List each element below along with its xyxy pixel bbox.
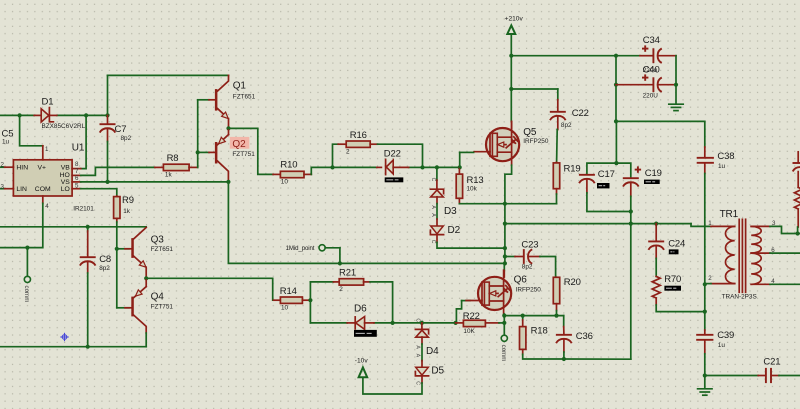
wire C34/C40 right to ground [675, 56, 677, 104]
wire D1/C5 net (top-left, y=115.4) [0, 114, 34, 116]
wire down-left to U1 pin1 [20, 115, 43, 145]
wire Q5 source rail down [504, 204, 506, 264]
node junction R13/Q5 gate [458, 165, 462, 169]
wire to C38 column [616, 121, 705, 147]
svg-text:C21: C21 [763, 356, 780, 367]
diode D1 (zener BZX85C6V2RL) [34, 108, 57, 122]
node junction C24 tap on rail [654, 222, 658, 226]
wire D3-D2 link [436, 197, 438, 226]
svg-text:6: 6 [75, 175, 79, 182]
capacitor C17 [579, 175, 631, 212]
svg-text:R21: R21 [339, 267, 356, 278]
value C23 8p2 [522, 263, 533, 270]
pin marker A (D3 anode) [430, 205, 436, 209]
value Q1 FZT651 [233, 94, 256, 101]
resistor R21 [333, 279, 392, 323]
wire TR1 pin2 to x705 column [705, 283, 711, 285]
value TRAN-2P3S [722, 293, 757, 300]
svg-text:8p2: 8p2 [522, 263, 533, 270]
svg-text:R14: R14 [280, 286, 297, 297]
pin 8 stub (VB) [72, 168, 81, 170]
label C38 [717, 151, 734, 162]
pin 2 stub (HIN) and wire [0, 166, 13, 168]
capacitor (partial, right edge) [793, 152, 800, 172]
wire Q6 gate to R22 node [456, 301, 470, 323]
pin number 3 (TR1) [772, 220, 776, 227]
transistor Q3 FZT651 [125, 227, 146, 278]
label D4 [426, 346, 439, 357]
wire TR1 pin4 net [770, 283, 800, 285]
svg-text:2: 2 [346, 149, 350, 156]
label comm (left, rotated) [23, 286, 30, 303]
wire +210v vertical [510, 34, 512, 122]
svg-text:A: A [430, 205, 436, 209]
label Q3 [151, 235, 165, 246]
svg-text:10K: 10K [463, 328, 475, 335]
node junction Q2 base tap [196, 150, 200, 154]
svg-text:D4: D4 [426, 346, 439, 357]
svg-text:Q1: Q1 [233, 80, 247, 91]
wire TR1 pin3 net [770, 226, 800, 233]
label R8 [167, 153, 179, 164]
wire to C21 [705, 375, 758, 377]
wire D4-D5 link [421, 337, 423, 367]
svg-text:LIN: LIN [16, 186, 27, 193]
label R18 [531, 326, 548, 337]
capacitor C40 220U [616, 74, 676, 92]
label D6 [354, 303, 367, 314]
svg-text:C40: C40 [643, 65, 660, 76]
value Q6 IRFP250 [516, 287, 542, 294]
svg-text:7: 7 [75, 168, 79, 175]
value D22 (black tag) [385, 177, 404, 182]
power -10v [355, 358, 369, 378]
label C34 [643, 35, 660, 46]
wire bottom rail (y=346.7) [0, 346, 146, 348]
node junction C40 right [674, 83, 678, 87]
svg-text:1: 1 [708, 220, 712, 227]
label C23 [521, 239, 538, 250]
svg-text:1k: 1k [123, 208, 131, 215]
label R10 [280, 159, 297, 170]
wire D5 to -10v [363, 377, 422, 394]
value R16 2 [346, 149, 350, 156]
wire C34/C40 left column [615, 56, 617, 122]
label R21 [339, 267, 356, 278]
wire main node (y=167.4) D22 segment [333, 166, 460, 168]
wire D4 top pin [421, 323, 423, 329]
wire D3 top pin [436, 167, 438, 188]
svg-text:IRFP250: IRFP250 [516, 287, 542, 294]
value C22 8p2 [561, 122, 572, 129]
svg-text:2: 2 [1, 161, 5, 168]
wire VB vertical (x=86.1) [81, 115, 86, 168]
power +210v [505, 15, 524, 34]
wire VS rail (y=181.9) [81, 181, 229, 183]
wire to ground (bottom right) [704, 376, 706, 389]
svg-text:FZT651: FZT651 [233, 94, 256, 101]
pin number 6 (TR1) [771, 247, 775, 254]
node junction at VB column (86.1,115.4) [84, 113, 88, 117]
value C39 1u [718, 342, 726, 349]
svg-text:VS: VS [61, 179, 71, 186]
svg-text:comm: comm [500, 345, 507, 362]
capacitor C38 [697, 147, 714, 174]
pin number 5 [75, 183, 79, 190]
svg-text:V+: V+ [38, 165, 47, 172]
node junction C23 tap [503, 254, 507, 258]
value R70 (black tag) [664, 286, 681, 291]
svg-text:BZX85C6V2RL: BZX85C6V2RL [42, 123, 86, 130]
value R14 10 [281, 305, 289, 312]
svg-text:10k: 10k [467, 186, 478, 193]
label R9 [122, 195, 134, 206]
svg-text:A: A [415, 345, 421, 349]
wire COM down to comm rail [0, 203, 43, 247]
node junction C36 bottom [562, 357, 566, 361]
node junction D2 net [503, 246, 507, 250]
transistor Q2 FZT751 (highlighted) [198, 128, 250, 182]
node junction TR1 primary rail [503, 222, 507, 226]
pin number 4 (TR1) [771, 278, 775, 285]
label R14 [280, 286, 297, 297]
node junction Q3/Q4 bases [115, 247, 119, 251]
wire LO to R9 [81, 189, 117, 196]
svg-text:R9: R9 [122, 195, 134, 206]
label R13 [467, 175, 484, 186]
origin marker (blue) [60, 333, 68, 341]
wire emitters to R10 [229, 128, 274, 174]
transistor Q5 IRFP250 [460, 121, 520, 203]
value C24 (black tag) [669, 249, 679, 254]
node junction Q1/Q2 emitters [226, 126, 230, 130]
label U1 [72, 143, 85, 154]
svg-text:C38: C38 [717, 151, 734, 162]
diode D2 (zener) [430, 226, 443, 235]
svg-text:Q4: Q4 [151, 291, 165, 302]
svg-text:2: 2 [708, 275, 712, 282]
svg-text:C: C [415, 318, 421, 322]
svg-text:HIN: HIN [16, 165, 28, 172]
label C39 [717, 330, 734, 341]
resistor R10 [273, 171, 311, 177]
capacitor C24 [648, 224, 664, 277]
label D3 [444, 206, 457, 217]
resistor (partial zigzag, right edge) [794, 172, 800, 234]
node junction R70 bottom tap [703, 310, 707, 314]
op-amp U1 IR2101 body [13, 160, 72, 196]
wire base to Q3 [117, 248, 129, 250]
svg-text:1u: 1u [718, 163, 726, 170]
wire Q1 collector rail (y=75.4) [108, 74, 229, 76]
svg-text:C36: C36 [576, 331, 593, 342]
value R21 2 [339, 286, 343, 293]
svg-text:Q3: Q3 [151, 235, 165, 246]
svg-text:10: 10 [281, 179, 289, 186]
svg-text:4: 4 [45, 203, 49, 210]
svg-text:8p2: 8p2 [99, 265, 110, 272]
wire C38 bottom down to C39 [704, 174, 706, 331]
transistor Q6 IRFP250 [466, 263, 511, 335]
svg-text:LO: LO [61, 186, 70, 193]
svg-text:A: A [415, 354, 421, 358]
svg-text:2: 2 [339, 286, 343, 293]
node junction C34/C40 left column [614, 54, 618, 58]
svg-text:TR1: TR1 [720, 209, 739, 220]
label C24 [668, 238, 685, 249]
svg-text:R10: R10 [280, 159, 297, 170]
wire HO to R8 [81, 167, 155, 175]
value C17 (black tag) [597, 183, 610, 188]
value C8 8p2 [99, 265, 110, 272]
wire Q6 source net (y=315.6) [504, 316, 563, 327]
svg-text:IR2101: IR2101 [73, 205, 94, 212]
label C19 [645, 168, 662, 179]
node junction R21 drop [391, 321, 395, 325]
svg-text:1k: 1k [165, 172, 173, 179]
wire C17/C19 top link [587, 163, 631, 177]
svg-text:U1: U1 [72, 143, 85, 154]
svg-text:3: 3 [1, 183, 5, 190]
node junction R14 right [308, 298, 312, 302]
svg-text:D5: D5 [431, 366, 444, 377]
resistor R14 [274, 297, 311, 303]
wire R10 to main gate-drive wire [311, 167, 332, 174]
svg-text:C24: C24 [668, 238, 685, 249]
svg-text:D3: D3 [444, 206, 457, 217]
pin marker C (D5) [415, 381, 421, 385]
pin 1 stub (V+) [42, 146, 44, 160]
value C34 220u (under C40 label) [643, 67, 658, 74]
svg-text:8: 8 [75, 161, 79, 168]
node junction D4 top [420, 321, 424, 325]
label C40 [643, 65, 660, 76]
value Q2 FZT751 [232, 151, 255, 158]
capacitor C34 220u [640, 45, 676, 63]
value IR2101 [73, 205, 94, 212]
svg-text:1: 1 [45, 146, 49, 153]
wire C7 top column [107, 75, 109, 115]
resistor R70 (zigzag) [652, 276, 705, 311]
resistor R8 [155, 164, 198, 170]
label Q1 [233, 80, 247, 91]
terminal 1Mid_point [319, 245, 340, 264]
resistor R16 [333, 141, 423, 167]
svg-text:R20: R20 [564, 277, 581, 288]
svg-text:C34: C34 [643, 35, 660, 46]
label R70 [664, 274, 681, 285]
svg-text:-10v: -10v [355, 358, 369, 365]
diode D4 (zener) [415, 329, 428, 337]
pin marker A (D5) [415, 354, 421, 358]
pin number 6 [75, 175, 79, 182]
node junction mid rail end [503, 261, 507, 265]
resistor R13 [456, 167, 505, 203]
node junction R22/Q6 gate [454, 321, 458, 325]
node junction Q2 collector / VS rail end [226, 180, 230, 184]
pin marker A (D2 anode) [430, 213, 436, 217]
ground (top right) [669, 104, 683, 110]
value R8 1k [165, 172, 173, 179]
capacitor C21 [758, 368, 800, 383]
node junction comm terminal tap [25, 246, 29, 250]
label C8 [99, 254, 111, 265]
svg-text:comm: comm [23, 286, 30, 303]
resistor R20 [553, 277, 559, 315]
label C22 [572, 108, 589, 119]
label D22 [384, 149, 401, 160]
value D6 (black tag) [354, 330, 377, 337]
svg-text:8p2: 8p2 [561, 122, 572, 129]
svg-text:C17: C17 [598, 169, 615, 180]
capacitor C8 [80, 227, 96, 347]
diode D3 (zener) [430, 189, 443, 197]
svg-text:A: A [430, 213, 436, 217]
node junction pin3 net [796, 231, 800, 235]
transformer TR1 TRAN-2P3S [711, 219, 770, 292]
svg-text:IRFP250: IRFP250 [523, 138, 549, 145]
terminal comm (right) [501, 335, 507, 341]
resistor R18 [520, 316, 564, 359]
capacitor C23 [505, 249, 556, 277]
value C5 1u [2, 139, 10, 146]
resistor R9 [114, 196, 120, 249]
node junction C17 bottom on C19 column [629, 209, 633, 213]
wire R21 branch [310, 281, 333, 283]
svg-text:FZT751: FZT751 [151, 303, 174, 310]
pin number 1 [45, 146, 49, 153]
capacitor C22 [550, 100, 566, 163]
wire D6 net (y=322.9) [310, 322, 455, 324]
svg-text:FZT751: FZT751 [232, 151, 255, 158]
value C40 220U [643, 93, 659, 100]
svg-text:R70: R70 [664, 274, 681, 285]
label Q5 [523, 127, 537, 138]
label Q4 [151, 291, 165, 302]
value R22 10K [463, 328, 475, 335]
svg-text:5: 5 [75, 183, 79, 190]
svg-text:10: 10 [281, 305, 289, 312]
pin number 1 (TR1) [708, 220, 712, 227]
label Q6 [514, 275, 528, 286]
wire TR1 pin6 net [770, 252, 800, 254]
value C7 8p2 [121, 135, 132, 142]
node junction D3 top [435, 165, 439, 169]
wire bottom net to C19 column [564, 358, 631, 360]
pin number 3 [1, 183, 5, 190]
capacitor C19 with polarity [623, 166, 641, 359]
node junction Q3/Q4 emitters [144, 276, 148, 280]
svg-text:FZT651: FZT651 [151, 246, 174, 253]
wire rail (y=226.8) [0, 226, 146, 228]
svg-text:HO: HO [60, 172, 70, 179]
label D5 [431, 366, 444, 377]
svg-text:Q6: Q6 [514, 275, 528, 286]
pin number 4 [45, 203, 49, 210]
label TR1 [720, 209, 739, 220]
resistor R22 [456, 320, 505, 326]
node junction R16 left [330, 165, 334, 169]
node junction ground/C21 net [703, 373, 707, 377]
pin marker C (D2 cathode) [430, 240, 436, 244]
wire mid rail (Q2 collector to Q6 drain) [228, 182, 505, 264]
pin marker C (D3 cathode) [430, 178, 436, 182]
svg-text:D2: D2 [448, 225, 461, 236]
resistor R19 [505, 162, 560, 203]
diode D6 [347, 317, 374, 330]
node junction C19 column on rail [629, 222, 633, 226]
svg-text:C39: C39 [717, 330, 734, 341]
value Q3 FZT651 [151, 246, 174, 253]
label R16 [350, 130, 367, 141]
pin number 8 [75, 161, 79, 168]
wire from D1 cathode to VB/C7 column [57, 114, 108, 116]
diode D5 (zener) [415, 367, 428, 376]
label comm (right, rotated) [500, 345, 507, 362]
node junction C8 bottom [86, 345, 90, 349]
label R20 [564, 277, 581, 288]
pin marker C (D4) [415, 318, 421, 322]
svg-text:R19: R19 [564, 164, 581, 175]
wire C22-R19 column down to C17 feed [615, 121, 617, 163]
pin marker A (D4) [415, 345, 421, 349]
node junction +210v rail [509, 54, 513, 58]
node junction at (19.6,115.4) [18, 113, 22, 117]
svg-text:8p2: 8p2 [121, 135, 132, 142]
svg-text:D6: D6 [354, 303, 367, 314]
pin number 2 [1, 161, 5, 168]
svg-text:D22: D22 [384, 149, 401, 160]
ground (bottom right) [698, 389, 712, 395]
node junction R18 top [521, 314, 525, 318]
transistor Q4 FZT751 [125, 278, 146, 346]
node junction at C7 column (107.5,115.4) [105, 113, 109, 117]
value Q4 FZT751 [151, 303, 174, 310]
node junction Q5 source / R19 [503, 202, 507, 206]
svg-text:TRAN-2P3S: TRAN-2P3S [722, 293, 757, 300]
node junction R16 right [420, 165, 424, 169]
svg-text:R22: R22 [463, 311, 480, 322]
pin 4 stub (COM) [42, 196, 44, 203]
capacitor C39 [696, 330, 713, 376]
node junction Q6 source rail [502, 314, 506, 318]
svg-text:D1: D1 [42, 97, 54, 108]
capacitor C36 [556, 327, 572, 359]
node junction Q6 source / R22 [502, 321, 506, 325]
value R10 10 [281, 179, 289, 186]
svg-text:Q2: Q2 [232, 139, 246, 150]
node junction R20 bottom [554, 314, 558, 318]
wire R8 to Q1/Q2 bases [197, 100, 199, 168]
wire R21/D6 left column [309, 282, 311, 323]
label R19 [564, 164, 581, 175]
value R13 10k [467, 186, 478, 193]
wire D2 bottom to Q6 drain column [437, 235, 505, 248]
pin number 2 (TR1) [708, 275, 712, 282]
label C5 [2, 128, 14, 139]
svg-text:1u: 1u [2, 139, 10, 146]
svg-text:Q5: Q5 [523, 127, 537, 138]
svg-text:+210v: +210v [505, 15, 524, 22]
node junction C17/C19 feed [614, 161, 618, 165]
svg-text:C: C [430, 178, 436, 182]
svg-text:COM: COM [35, 186, 51, 193]
label D2 [448, 225, 461, 236]
svg-text:C19: C19 [645, 168, 662, 179]
label C21 [763, 356, 780, 367]
capacitor C7 [100, 115, 116, 181]
node junction C8 top [86, 225, 90, 229]
